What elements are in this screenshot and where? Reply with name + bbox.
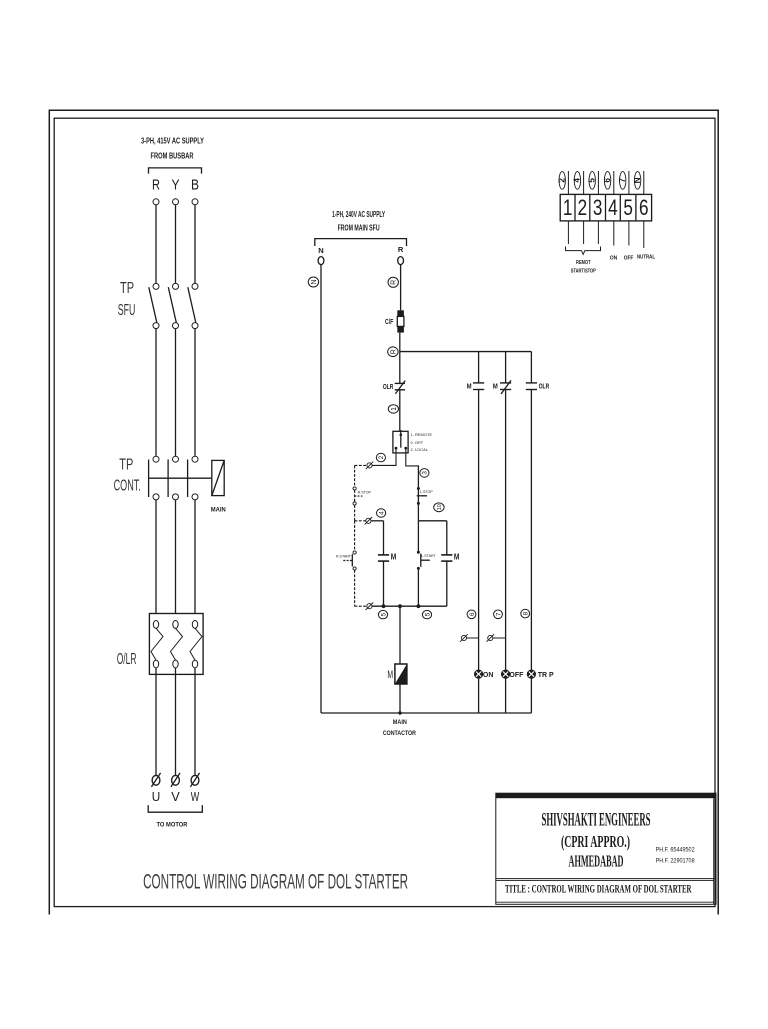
svg-text:7: 7 <box>495 612 502 616</box>
svg-text:R: R <box>390 349 397 354</box>
svg-text:1: 1 <box>563 196 573 221</box>
svg-text:M: M <box>467 382 472 391</box>
svg-text:N: N <box>311 279 318 284</box>
svg-text:1: 1 <box>391 407 398 411</box>
svg-text:CONTROL WIRING DIAGRAM OF DOL: CONTROL WIRING DIAGRAM OF DOL STARTER <box>143 870 408 894</box>
svg-text:7: 7 <box>618 178 627 183</box>
svg-text:5: 5 <box>424 612 431 616</box>
svg-text:W: W <box>191 789 200 804</box>
svg-text:R.STOP: R.STOP <box>358 490 372 494</box>
svg-text:6: 6 <box>603 178 612 183</box>
svg-text:CONTACTOR: CONTACTOR <box>383 730 416 737</box>
svg-text:R: R <box>391 280 398 285</box>
svg-text:(CPRI APPRO.): (CPRI APPRO.) <box>561 832 630 851</box>
svg-text:4: 4 <box>378 511 385 515</box>
svg-text:SHIVSHAKTI ENGINEERS: SHIVSHAKTI ENGINEERS <box>542 809 651 830</box>
svg-text:M: M <box>391 552 397 561</box>
svg-text:L.STOP: L.STOP <box>420 490 433 494</box>
svg-text:R: R <box>152 177 160 193</box>
svg-text:REMOT: REMOT <box>576 260 591 266</box>
svg-text:N: N <box>318 246 323 255</box>
svg-text:TP: TP <box>120 280 134 297</box>
svg-text:PH.F. 22901708: PH.F. 22901708 <box>656 857 695 864</box>
svg-text:1-PH, 240V AC SUPPLY: 1-PH, 240V AC SUPPLY <box>332 210 385 219</box>
svg-text:AHMEDABAD: AHMEDABAD <box>569 852 624 871</box>
svg-text:3: 3 <box>422 471 429 475</box>
svg-text:1. REMOTE: 1. REMOTE <box>411 432 433 437</box>
svg-text:2: 2 <box>558 178 567 183</box>
svg-text:U: U <box>152 789 161 804</box>
svg-text:ON: ON <box>483 672 494 679</box>
svg-text:O/LR: O/LR <box>117 651 137 668</box>
svg-text:C/F: C/F <box>385 317 394 326</box>
svg-text:TO MOTOR: TO MOTOR <box>157 822 188 829</box>
svg-text:FROM BUSBAR: FROM BUSBAR <box>151 151 194 160</box>
svg-text:SFU: SFU <box>118 302 136 319</box>
svg-text:R: R <box>398 245 404 254</box>
svg-text:5: 5 <box>588 178 597 183</box>
svg-text:2: 2 <box>578 196 588 221</box>
svg-text:5: 5 <box>623 196 633 221</box>
svg-text:TR P: TR P <box>538 672 554 679</box>
svg-text:2: 2 <box>378 455 385 459</box>
svg-text:ON: ON <box>610 256 618 262</box>
svg-text:Y: Y <box>172 177 180 193</box>
svg-text:START/STOP: START/STOP <box>571 269 596 275</box>
svg-text:TP: TP <box>119 457 133 474</box>
svg-text:B: B <box>191 177 199 193</box>
svg-text:TITLE : CONTROL WIRING DIAGRA: TITLE : CONTROL WIRING DIAGRAM OF DOL ST… <box>505 884 692 896</box>
svg-text:OFF: OFF <box>624 256 634 262</box>
svg-text:10: 10 <box>437 504 443 510</box>
svg-text:OLR: OLR <box>539 382 550 391</box>
svg-text:OFF: OFF <box>509 672 524 679</box>
svg-text:6: 6 <box>639 196 649 221</box>
svg-text:M: M <box>454 552 460 561</box>
svg-text:3-PH, 415V AC SUPPLY: 3-PH, 415V AC SUPPLY <box>141 137 204 146</box>
svg-text:FROM MAIN SFU: FROM MAIN SFU <box>338 224 380 233</box>
svg-text:4: 4 <box>608 196 618 221</box>
svg-text:8: 8 <box>523 611 530 615</box>
svg-text:MAIN: MAIN <box>393 719 407 726</box>
svg-text:MAIN: MAIN <box>211 507 226 514</box>
svg-text:R.START: R.START <box>336 554 352 558</box>
svg-text:N: N <box>633 177 642 183</box>
svg-text:0. OFF: 0. OFF <box>411 440 424 445</box>
svg-text:5: 5 <box>380 612 387 616</box>
svg-text:OLR: OLR <box>383 382 394 391</box>
svg-text:6: 6 <box>469 612 476 616</box>
svg-text:3: 3 <box>593 196 603 221</box>
svg-text:2. LOCAL: 2. LOCAL <box>411 447 429 452</box>
svg-text:V: V <box>171 789 180 804</box>
svg-text:4: 4 <box>573 178 582 183</box>
svg-text:NUTRAL: NUTRAL <box>637 255 656 261</box>
svg-text:M: M <box>493 382 498 391</box>
svg-text:M: M <box>387 668 393 680</box>
svg-text:PH.F. 65449502: PH.F. 65449502 <box>656 846 695 853</box>
svg-text:CONT.: CONT. <box>114 478 141 495</box>
svg-text:L.START: L.START <box>421 554 436 558</box>
